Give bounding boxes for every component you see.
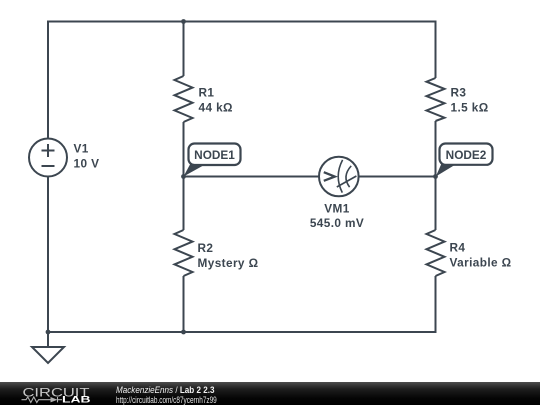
- svg-text:Variable Ω: Variable Ω: [450, 256, 512, 270]
- wire middle branch top segment: [183, 22, 185, 77]
- svg-text:R4: R4: [450, 241, 466, 255]
- voltage source V1: [29, 139, 67, 177]
- svg-text:VM1: VM1: [324, 201, 349, 215]
- label R1 44 kOhm: [199, 86, 233, 115]
- CircuitLab logo: [0, 382, 110, 405]
- wire voltmeter to node2: [359, 176, 436, 178]
- wire right branch between R3 and R4: [435, 121, 437, 230]
- svg-text:Mystery Ω: Mystery Ω: [198, 256, 259, 270]
- svg-text:10 V: 10 V: [74, 156, 100, 170]
- svg-text:LAB: LAB: [62, 395, 91, 405]
- svg-text:545.0 mV: 545.0 mV: [310, 216, 364, 230]
- resistor R4: [427, 230, 445, 276]
- node NODE1 callout: [184, 144, 241, 177]
- junction dot bottom middle: [181, 330, 186, 335]
- resistor R3: [427, 78, 445, 121]
- svg-text:V1: V1: [74, 141, 89, 155]
- svg-text:R1: R1: [199, 86, 215, 100]
- resistor R2: [175, 230, 193, 276]
- wire bottom from V1 branch to R4 branch: [48, 177, 436, 333]
- svg-text:NODE1: NODE1: [194, 148, 235, 162]
- wire node1 to voltmeter: [184, 176, 320, 178]
- junction dot ground: [46, 330, 51, 335]
- svg-text:R3: R3: [451, 86, 467, 100]
- svg-text:R2: R2: [198, 241, 214, 255]
- wire top from V1 branch to R3 branch: [48, 22, 436, 139]
- svg-text:NODE2: NODE2: [446, 148, 487, 162]
- junction dot top middle: [181, 19, 186, 24]
- label R3 1.5 kOhm: [451, 86, 489, 115]
- junction dot node A NODE1: [181, 174, 186, 179]
- footer meta text: [116, 386, 214, 395]
- label V1 10 V: [74, 141, 100, 170]
- footer bar: [0, 382, 540, 405]
- wire middle branch bottom segment: [183, 276, 185, 332]
- ground: [32, 332, 64, 363]
- voltmeter VM1: [319, 157, 359, 197]
- node NODE2 callout: [436, 144, 493, 177]
- svg-text:44 kΩ: 44 kΩ: [199, 100, 233, 114]
- label VM1 545.0 mV: [310, 201, 364, 230]
- label R2 Mystery Ohm: [198, 241, 259, 270]
- resistor R1: [175, 76, 193, 122]
- label R4 Variable Ohm: [450, 241, 512, 270]
- svg-text:1.5 kΩ: 1.5 kΩ: [451, 100, 489, 114]
- wire middle branch between R1 and R2: [183, 122, 185, 230]
- junction dot node B NODE2: [433, 174, 438, 179]
